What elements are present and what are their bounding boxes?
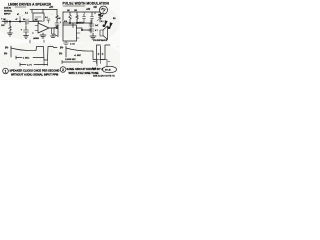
stem wire <box>19 17 21 22</box>
svg-text:+9V: +9V <box>86 9 91 11</box>
svg-text:LM386: LM386 <box>33 38 39 40</box>
pulse edge extensions <box>44 60 48 66</box>
svg-text:+9V: +9V <box>49 7 54 9</box>
svg-text:SAME CIRCUIT DRIVEN BY A: SAME CIRCUIT DRIVEN BY A <box>67 67 104 71</box>
svg-text:0.4: 0.4 <box>45 17 48 19</box>
pin stubs <box>77 33 81 38</box>
svg-text:WITH 1 KHZ SINE TONE: WITH 1 KHZ SINE TONE <box>69 71 99 75</box>
ground G3 under opamp <box>40 33 46 38</box>
svg-text:OF: OF <box>94 6 98 9</box>
ground G2 <box>24 36 29 39</box>
capacitor C7 <box>89 24 94 26</box>
pulse edge extensions <box>97 60 101 64</box>
resistor R4 right <box>56 15 59 21</box>
output wire <box>49 27 57 29</box>
svg-text:9V-: 9V- <box>5 47 9 50</box>
ground G1 <box>8 33 13 36</box>
svg-text:2: 2 <box>62 68 64 72</box>
underline left title <box>15 6 26 8</box>
capacitor C3 <box>55 23 59 25</box>
svg-text:0V-: 0V- <box>4 53 8 56</box>
op-amp U1 triangle <box>38 23 49 33</box>
marker 1 mS <box>20 63 48 66</box>
svg-text:1 mS: 1 mS <box>27 65 32 67</box>
marker 1 SEC <box>16 56 44 59</box>
top rail wire <box>63 11 100 13</box>
IC box U1 <box>33 13 44 21</box>
svg-text:1 mS: 1 mS <box>70 44 75 46</box>
output wire pin 3 <box>77 28 89 30</box>
capacitor C8 <box>89 29 94 31</box>
axis <box>65 46 67 57</box>
input wire <box>2 21 38 23</box>
scan speckle <box>2 1 119 77</box>
svg-text:WITHOUT AUDIO SIGNAL INPUT PPM: WITHOUT AUDIO SIGNAL INPUT PPM <box>11 72 59 76</box>
capacitor C5 <box>83 15 86 23</box>
rail drop wires <box>70 12 92 15</box>
svg-text:10K: 10K <box>1 25 5 27</box>
plus marks <box>98 53 104 55</box>
capacitor C4 <box>47 19 50 23</box>
capacitor C6 <box>91 15 94 23</box>
svg-text:NE555: NE555 <box>77 23 84 25</box>
ground G4 <box>90 33 96 39</box>
junction wire <box>63 22 92 24</box>
waveform trace <box>66 45 110 60</box>
power rail +9V left circuit <box>30 9 57 11</box>
node dots <box>69 22 70 23</box>
music note 2 <box>108 23 113 29</box>
coupling wire <box>88 20 91 33</box>
speaker SP2 <box>100 30 103 36</box>
svg-text:LM386 DRIVES A SPEAKER: LM386 DRIVES A SPEAKER <box>8 3 52 7</box>
cap C1 series <box>26 19 28 24</box>
svg-text:9V-: 9V- <box>60 47 64 50</box>
narrow pulse arrows <box>93 61 110 63</box>
doodle circle top right <box>100 6 108 14</box>
IC U2 555 <box>63 25 77 41</box>
node dot B <box>19 21 20 22</box>
svg-text:0V-: 0V- <box>59 53 63 56</box>
svg-text:47: 47 <box>17 14 19 16</box>
circled 1 <box>3 68 9 74</box>
waveform trace <box>11 47 57 61</box>
svg-text:1 SEC: 1 SEC <box>23 58 30 60</box>
underline right title <box>63 5 85 7</box>
pot R7 50K <box>94 12 96 14</box>
resistor R5 <box>69 15 72 23</box>
svg-text:1: 1 <box>5 70 7 74</box>
svg-text:1/1000 SEC: 1/1000 SEC <box>65 59 76 61</box>
svg-text:INPUT: INPUT <box>4 14 11 16</box>
speaker SP1 <box>52 28 55 34</box>
left rail wire <box>62 12 64 25</box>
svg-text:2mS,: 2mS, <box>92 68 97 70</box>
resistor R6 <box>76 15 79 23</box>
svg-text:.1: .1 <box>60 22 61 24</box>
ground under box <box>64 41 69 45</box>
ground tail wires <box>30 40 44 43</box>
wire rail drops <box>31 10 33 14</box>
node dot out <box>81 29 82 30</box>
svg-text:.1: .1 <box>32 33 33 35</box>
axis <box>10 46 12 57</box>
pulse width bracket <box>97 60 107 67</box>
circled 2 <box>60 67 66 73</box>
label AUDIO SIGNAL INPUT <box>4 7 13 16</box>
svg-text:PULSE WIDTH MODULATION: PULSE WIDTH MODULATION <box>63 2 110 6</box>
oval note <box>103 66 117 73</box>
music note 1 <box>103 21 108 27</box>
svg-text:0.01: 0.01 <box>64 21 67 23</box>
node dot A <box>9 21 10 22</box>
svg-text:9V+B: 9V+B <box>105 70 111 72</box>
svg-text:0.1: 0.1 <box>101 21 104 23</box>
svg-text:47: 47 <box>16 19 18 21</box>
